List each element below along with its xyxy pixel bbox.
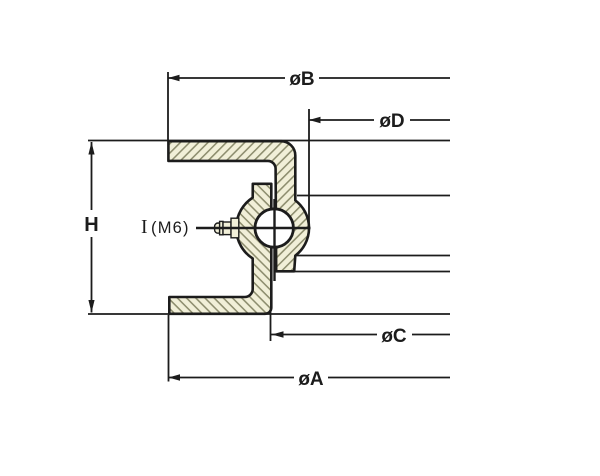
dimension øC: label [377,325,412,345]
dimension øD: arrowhead [309,117,321,123]
dimension øB: line [168,77,450,79]
ball centerline vertical [273,199,275,281]
surface projection line top (y=140.5) [88,140,450,142]
dimension øC: line [271,334,451,336]
dimension øA: arrowhead [169,374,181,380]
dimension øD: label [374,110,410,130]
dimension H: line [91,142,93,313]
outer ring (top flange + right column), hatch / [168,141,309,271]
dimension øA: line [169,377,451,379]
dimension øD: extension line [308,109,310,228]
dimension øD: line [309,119,450,121]
svg-text:H: H [84,214,98,236]
svg-text:øA: øA [298,369,324,390]
dimension øC: extension line [270,309,272,341]
dimension øB: arrowhead [168,75,180,81]
projection line outer-ring bottom (y=271.5) [294,271,450,273]
grease fitting tip cap [215,223,222,233]
svg-text:øD: øD [379,111,404,132]
svg-text:øB: øB [289,69,314,90]
ball [255,209,293,247]
dimension øA: label [294,368,328,388]
dimension H: bottom arrowhead [88,300,94,313]
projection line raceway top (y=195) [297,195,450,197]
projection line raceway bottom (y=255.5) [295,255,450,257]
dimension øA: extension line [168,315,170,382]
dimension H: top arrowhead [88,142,94,155]
dimension øB: label [285,68,319,88]
grease fitting I(M6) [215,218,239,238]
svg-text:øC: øC [381,326,407,347]
surface projection line bottom (y=314) [88,313,450,315]
inner ring (bottom flange + middle column), hatch \ [169,184,271,314]
ball centerline horizontal + I(M6) leader [196,227,311,229]
grease fitting shaft [223,222,231,235]
grease fitting ridge [220,221,223,234]
dimension øB: extension line [167,72,169,141]
grease fitting base block [231,218,239,238]
dimension øC: arrowhead [272,331,284,337]
dimension H: label [83,210,101,237]
